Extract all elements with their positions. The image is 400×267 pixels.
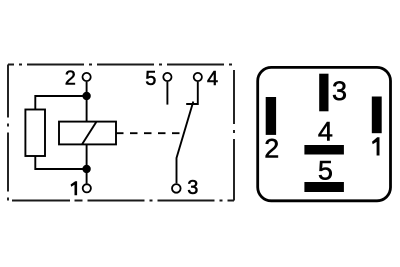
svg-text:4: 4 [318,117,333,147]
wire terminal 4 to fixed contact [186,82,198,104]
terminal 1 circle [83,184,91,192]
wire coil bottom to junction B [86,144,88,169]
svg-text:3: 3 [187,177,198,199]
connector body outline [258,67,391,200]
connector pin 2 blade [266,97,276,135]
relay coil K1 [59,122,116,145]
terminal 1 label [71,181,78,195]
terminal 5 circle [163,73,171,81]
wire terminal2 to junction A [86,82,88,96]
wire junction B to terminal 1 [86,169,88,183]
connector pin 3 blade [319,74,328,112]
terminal 2 circle [83,73,91,81]
switch armature (movable contact) [177,102,194,184]
wire junction A to resistor top [35,96,86,110]
wire junction A to coil top [86,96,88,122]
svg-text:2: 2 [264,134,279,164]
mechanical link (dashed) coil to armature [116,132,182,134]
svg-text:5: 5 [145,68,156,90]
relay housing outline (dash-dot border) [8,65,234,201]
svg-text:2: 2 [65,68,76,90]
terminal 4 circle [194,73,202,81]
svg-text:5: 5 [318,155,333,185]
wire resistor bottom to junction B [35,156,86,169]
coil diagonal stroke [82,122,97,145]
wire terminal 5 stub [166,82,168,105]
connector pin 1 blade [372,97,382,134]
svg-text:3: 3 [332,76,347,106]
connector pin 1 label [372,137,380,155]
connector pin 4 blade [304,145,344,155]
node B (junction dot bottom) [82,165,90,173]
connector pin 5 blade [304,182,344,192]
terminal 3 circle [172,184,181,193]
svg-text:4: 4 [207,68,218,90]
resistor R1 [25,110,45,157]
node A (junction dot top) [82,92,90,100]
